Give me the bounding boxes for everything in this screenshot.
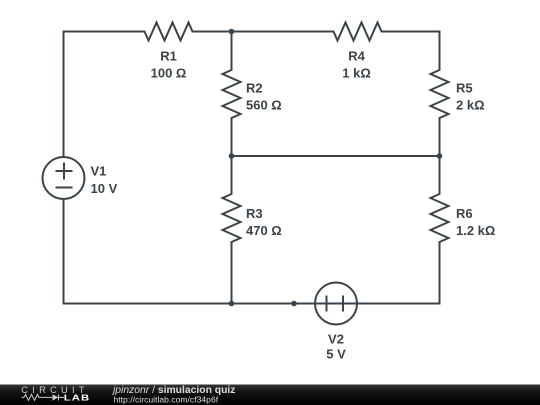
- svg-text:1 kΩ: 1 kΩ: [342, 66, 371, 81]
- svg-text:5 V: 5 V: [326, 346, 346, 361]
- svg-text:R1: R1: [160, 49, 177, 64]
- svg-text:http://circuitlab.com/cf34p6f: http://circuitlab.com/cf34p6f: [114, 395, 219, 405]
- svg-text:R3: R3: [246, 206, 263, 221]
- svg-text:R2: R2: [246, 81, 263, 96]
- svg-text:560 Ω: 560 Ω: [246, 98, 282, 113]
- svg-text:V1: V1: [91, 164, 107, 179]
- svg-text:470 Ω: 470 Ω: [246, 223, 282, 238]
- svg-text:100 Ω: 100 Ω: [151, 66, 187, 81]
- svg-text:1.2 kΩ: 1.2 kΩ: [456, 223, 495, 238]
- svg-text:R6: R6: [456, 206, 473, 221]
- svg-text:LAB: LAB: [64, 394, 90, 403]
- svg-text:10 V: 10 V: [91, 181, 118, 196]
- svg-text:2 kΩ: 2 kΩ: [456, 98, 485, 113]
- svg-text:R5: R5: [456, 81, 473, 96]
- svg-text:R4: R4: [348, 49, 365, 64]
- svg-text:V2: V2: [328, 332, 344, 347]
